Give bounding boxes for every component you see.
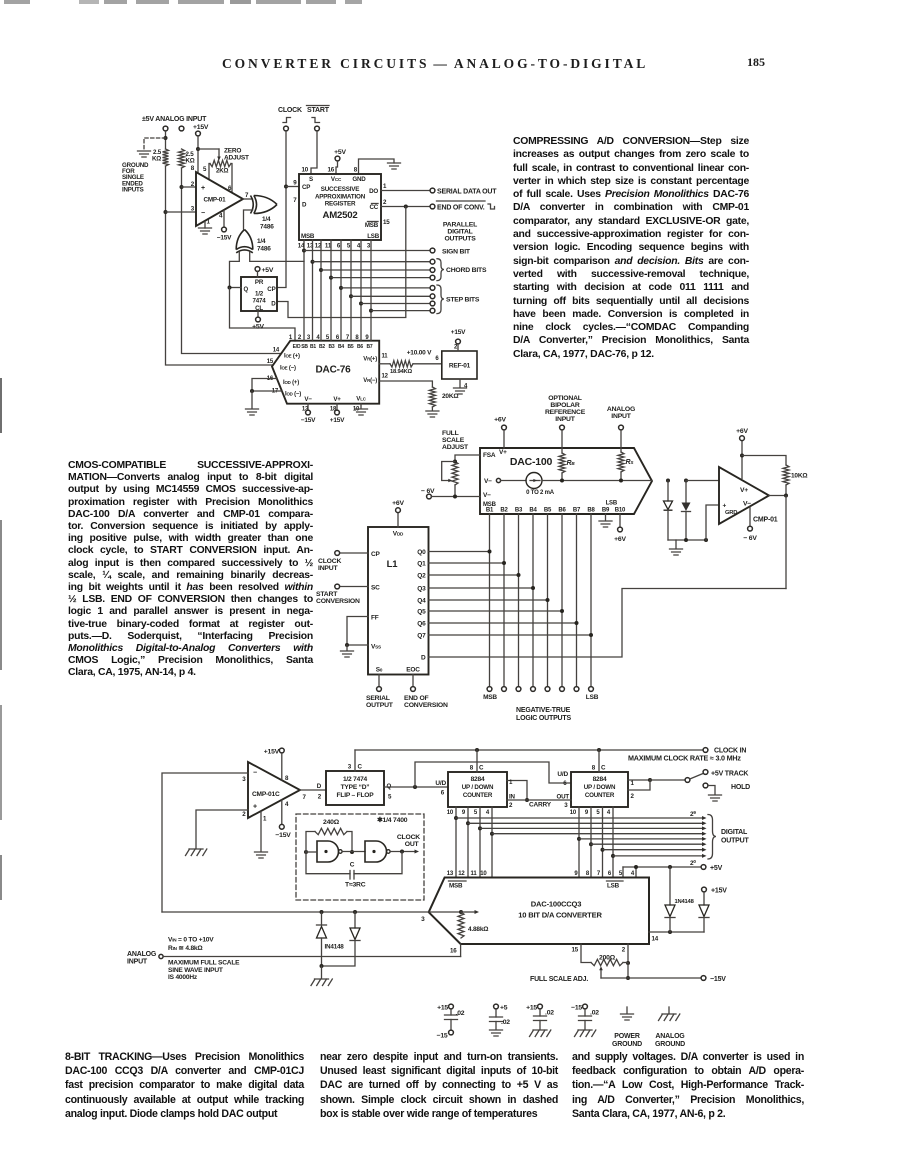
ground REF-01 — [454, 388, 467, 394]
terminal START — [315, 126, 320, 131]
svg-text:GND: GND — [352, 176, 366, 183]
svg-text:BIPOLAR: BIPOLAR — [550, 402, 579, 409]
wire B10 to +6V — [619, 514, 621, 527]
svg-text:15: 15 — [267, 359, 274, 365]
terminal start conversion — [335, 584, 340, 589]
wire feedback to 10K — [742, 456, 786, 466]
svg-text:LSB: LSB — [367, 233, 380, 240]
clock out arrow — [415, 849, 420, 853]
junction output — [784, 494, 788, 498]
svg-text:−15: −15 — [571, 1005, 582, 1012]
wire +15V to pin 8 — [197, 136, 199, 173]
potentiometer 2K zero adjust — [210, 160, 231, 166]
svg-text:SCALE: SCALE — [442, 437, 465, 444]
svg-text:0 TO 2 mA: 0 TO 2 mA — [526, 490, 555, 496]
svg-text:Q1: Q1 — [417, 560, 426, 567]
current source symbol — [526, 473, 542, 489]
flip-flop U10 1/2 7474 — [326, 771, 384, 805]
brace chord bits — [437, 259, 444, 281]
svg-text:18.94KΩ: 18.94KΩ — [390, 369, 412, 375]
svg-text:D: D — [271, 301, 276, 308]
svg-text:6: 6 — [608, 871, 612, 877]
dac U4 DAC-76 outline — [272, 341, 379, 404]
wire nand1 out to nand2 — [343, 851, 365, 853]
resistor 10K — [783, 465, 789, 485]
terminal hold — [703, 783, 708, 788]
svg-text:.02: .02 — [501, 1019, 510, 1026]
counter U12 8284 up/down — [571, 772, 628, 807]
junction pot bottom — [453, 495, 457, 499]
svg-text:+5V: +5V — [710, 865, 723, 872]
wire branch to comparator pin 3 — [166, 211, 197, 213]
terminal -15V fsa — [701, 976, 706, 981]
svg-text:IOE (+): IOE (+) — [284, 354, 300, 360]
svg-text:VIN = 0 TO +10V: VIN = 0 TO +10V — [168, 937, 214, 944]
svg-text:4: 4 — [631, 871, 635, 877]
svg-text:+10.00 V: +10.00 V — [407, 350, 432, 357]
svg-text:EOC: EOC — [406, 667, 420, 674]
svg-text:11: 11 — [382, 354, 389, 360]
svg-text:15: 15 — [572, 947, 579, 954]
junction CC node — [404, 205, 408, 209]
diode clamp D8 — [354, 912, 356, 928]
svg-text:GRD: GRD — [725, 510, 737, 516]
junction Q node — [228, 286, 232, 290]
wire resistor to nodeB — [347, 832, 352, 853]
terminal analog input c3 — [159, 954, 163, 958]
svg-text:16: 16 — [450, 948, 457, 955]
svg-text:8: 8 — [592, 765, 596, 772]
counter U11 8284 up/down — [448, 772, 507, 807]
junction+wires step bits — [339, 286, 343, 290]
wire comparator output — [769, 495, 786, 497]
svg-text:S0: S0 — [376, 667, 383, 674]
svg-text:5: 5 — [474, 810, 478, 816]
svg-text:T≈3RC: T≈3RC — [345, 882, 366, 889]
svg-text:CMP-01: CMP-01 — [753, 517, 778, 524]
svg-text:DIGITAL: DIGITAL — [721, 829, 748, 836]
wire clock line — [277, 131, 286, 288]
dashed box clock oscillator — [296, 814, 424, 900]
junction V+ feedback — [740, 454, 744, 458]
svg-text:9: 9 — [585, 810, 589, 816]
wire VLC to ground — [360, 404, 362, 408]
terminal +5V vcc — [335, 156, 340, 161]
svg-text:12: 12 — [458, 871, 465, 877]
svg-text:B3: B3 — [515, 508, 523, 514]
terminals negative-true outputs — [487, 687, 492, 692]
svg-text:IN: IN — [509, 794, 516, 801]
svg-text:7486: 7486 — [257, 246, 271, 253]
switch arm — [690, 774, 703, 780]
svg-text:+6V: +6V — [494, 417, 506, 424]
svg-text:LOGIC OUTPUTS: LOGIC OUTPUTS — [516, 715, 571, 722]
junction clamp b — [353, 910, 357, 914]
svg-text:MAXIMUM CLOCK RATE ≈ 3.0 MHz: MAXIMUM CLOCK RATE ≈ 3.0 MHz — [628, 754, 741, 763]
capacitor C osc — [350, 871, 354, 880]
svg-text:9: 9 — [293, 180, 297, 187]
svg-text:Q0: Q0 — [417, 549, 426, 556]
svg-text:FULL SCALE ADJ.: FULL SCALE ADJ. — [530, 976, 588, 983]
terminal -6V fsa — [427, 494, 432, 499]
register U1 AM2502 successive approximation — [299, 174, 381, 240]
svg-text:V−: V− — [483, 492, 491, 499]
svg-text:15: 15 — [383, 219, 390, 226]
svg-text:IS 4000Hz: IS 4000Hz — [168, 974, 198, 981]
wire CC to end of conv — [381, 206, 430, 208]
wiper arrow zero adjust — [218, 149, 220, 157]
svg-text:8: 8 — [470, 765, 474, 772]
left edge scan marks — [0, 378, 2, 433]
wires Q0-Q7 to bit lines — [429, 551, 490, 553]
ground clamp — [675, 540, 677, 548]
svg-text:2: 2 — [318, 794, 322, 801]
svg-text:+6V: +6V — [614, 536, 626, 543]
wire analog to RS — [620, 430, 622, 452]
svg-text:5: 5 — [347, 243, 351, 250]
wiper arrowhead — [448, 479, 452, 483]
terminal -15V dac — [306, 410, 311, 415]
svg-text:−: − — [201, 210, 205, 217]
svg-text:VCC: VCC — [331, 176, 342, 183]
svg-text:8: 8 — [586, 871, 590, 877]
svg-text:2: 2 — [383, 199, 387, 206]
svg-text:B6: B6 — [558, 508, 566, 514]
svg-text:V−: V− — [484, 478, 492, 485]
svg-text:CONVERSION: CONVERSION — [316, 598, 360, 605]
ground register GND pin — [388, 163, 401, 169]
svg-text:−15: −15 — [437, 1033, 448, 1040]
wire 10K to output — [785, 485, 787, 496]
junction rail counter1 — [475, 748, 479, 752]
wire +5V to PR — [257, 271, 259, 277]
svg-text:+5V: +5V — [262, 267, 274, 274]
ground for single-ended inputs — [138, 151, 151, 157]
svg-text:COUNTER: COUNTER — [463, 792, 493, 799]
svg-text:L1: L1 — [387, 559, 399, 570]
svg-text:CLOCK: CLOCK — [397, 834, 420, 841]
wire FF loop — [347, 617, 368, 646]
svg-text:+: + — [201, 185, 205, 192]
terminal -15V c3 — [279, 824, 284, 829]
svg-text:+15V: +15V — [451, 329, 466, 336]
junction input A / dashed branch — [164, 136, 168, 140]
chassis ground clamp — [311, 979, 332, 986]
svg-text:6: 6 — [337, 243, 341, 250]
wire fsa to -15V — [601, 977, 701, 979]
wire ref to RB — [561, 430, 563, 453]
wire input line A down to IOE(-) — [166, 166, 274, 365]
bottom caption column 2 — [320, 1050, 558, 1121]
svg-text:1: 1 — [383, 183, 387, 190]
wire comparator output to XOR1 — [243, 198, 253, 200]
svg-text:7: 7 — [597, 871, 601, 877]
svg-text:.02: .02 — [456, 1010, 465, 1017]
svg-text:Q3: Q3 — [417, 585, 426, 592]
svg-text:29: 29 — [690, 810, 696, 818]
junction+wires chord bits — [311, 260, 315, 264]
terminal end of conv — [430, 204, 435, 209]
wire FSA to pot — [455, 455, 480, 462]
svg-text:DAC-100: DAC-100 — [510, 456, 553, 468]
wire noninverting to ground — [196, 810, 248, 848]
wire counter2 pin2 loop — [628, 780, 650, 790]
wire pot bottom — [454, 485, 456, 497]
svg-text:11: 11 — [471, 871, 478, 877]
svg-text:1: 1 — [207, 219, 211, 226]
terminal bipolar ref — [560, 425, 565, 430]
diode clamp D6 — [684, 479, 688, 483]
terminal +5V rail — [701, 865, 706, 870]
bypass cap group 2 +5 — [494, 1004, 499, 1009]
diode D9 1N4148 — [669, 867, 671, 905]
svg-text:2: 2 — [622, 947, 626, 954]
svg-text:OPTIONAL: OPTIONAL — [548, 395, 582, 402]
svg-text:9: 9 — [462, 810, 466, 816]
svg-text:ANALOG: ANALOG — [127, 951, 157, 958]
bus junction dots and lines — [454, 816, 458, 820]
svg-text:CMP-01: CMP-01 — [204, 197, 227, 204]
diode clamp D7 — [321, 912, 323, 925]
svg-text:FLIP – FLOP: FLIP – FLOP — [337, 792, 375, 799]
svg-text:3: 3 — [421, 916, 425, 923]
junction clock out node — [400, 850, 404, 854]
flip-flop U3 1/2 7474 — [241, 277, 277, 311]
svg-text:−: − — [253, 770, 257, 777]
svg-text:Q2: Q2 — [417, 572, 426, 579]
wire line to comparator +input — [686, 480, 719, 482]
svg-text:Q7: Q7 — [417, 632, 426, 639]
junction +15V / zero-adjust — [196, 147, 200, 151]
svg-text:240Ω: 240Ω — [323, 819, 340, 826]
svg-text:MSB: MSB — [301, 233, 315, 240]
svg-text:OUTPUTS: OUTPUTS — [444, 236, 476, 243]
svg-text:B10: B10 — [615, 508, 626, 514]
nand gate U14a — [317, 841, 339, 862]
svg-text:REGISTER: REGISTER — [325, 201, 356, 208]
svg-text:CHORD BITS: CHORD BITS — [446, 267, 487, 274]
wire S0 out — [378, 675, 380, 687]
resistor 200 fsa — [591, 959, 623, 965]
svg-text:+15: +15 — [437, 1005, 448, 1012]
svg-text:+5: +5 — [500, 1005, 508, 1012]
ground pin1 c3 — [255, 852, 268, 858]
wire Q to U/D — [384, 786, 448, 788]
terminal analog input 2 — [179, 126, 184, 131]
svg-text:DAC-76: DAC-76 — [316, 365, 352, 376]
xor gate U2b 1/4 7486 vertical — [236, 250, 253, 253]
svg-text:−15V: −15V — [275, 832, 291, 839]
svg-text:4: 4 — [607, 810, 611, 816]
resistor RB — [559, 453, 565, 473]
svg-text:5: 5 — [388, 794, 392, 801]
svg-text:OUT: OUT — [557, 794, 570, 801]
wire cap to clockout node — [354, 852, 402, 874]
svg-text:+5V TRACK: +5V TRACK — [711, 771, 748, 778]
svg-text:INPUT: INPUT — [127, 959, 148, 966]
wire RS to line — [620, 472, 622, 481]
svg-text:4: 4 — [219, 213, 223, 220]
svg-text:7: 7 — [293, 197, 297, 204]
wire nand2 out — [391, 851, 414, 853]
svg-text:B7: B7 — [367, 344, 373, 350]
wire resistor to REF-01 — [413, 363, 442, 365]
wire to track switch — [650, 779, 685, 781]
wire XOR2 left input to 7474 Q — [230, 252, 240, 288]
wire dac pin15 stem — [581, 944, 591, 963]
svg-text:8: 8 — [354, 167, 358, 174]
svg-text:−15V: −15V — [301, 417, 316, 424]
svg-text:1N4148: 1N4148 — [675, 899, 695, 905]
dac U13 DAC-100CCQ3 outline — [429, 878, 649, 945]
svg-text:UP / DOWN: UP / DOWN — [462, 784, 494, 791]
wire dac pin2 stem — [627, 944, 629, 963]
ground IOD node — [246, 409, 259, 415]
terminal +15V c3 — [279, 748, 284, 753]
wire clamp node to chassis — [321, 966, 323, 978]
svg-text:B5: B5 — [348, 344, 354, 350]
svg-text:4: 4 — [486, 810, 490, 816]
junction clamp D6 — [684, 538, 688, 542]
svg-text:+: + — [253, 804, 257, 811]
svg-text:3: 3 — [348, 764, 352, 771]
svg-text:GROUND: GROUND — [655, 1041, 685, 1048]
svg-text:ANALOG: ANALOG — [655, 1033, 685, 1040]
wire RB to line — [561, 473, 563, 481]
op-amp comparator U8 CMP-01 — [719, 467, 769, 524]
wire VSS to ground — [346, 645, 348, 650]
svg-text:+: + — [723, 503, 727, 510]
svg-text:NEGATIVE-TRUE: NEGATIVE-TRUE — [516, 707, 571, 714]
terminal +5V preset — [255, 267, 260, 272]
svg-text:10 BIT D/A CONVERTER: 10 BIT D/A CONVERTER — [518, 911, 602, 920]
wire dac pin5 to +5V rail — [622, 867, 624, 878]
svg-text:OUTPUT: OUTPUT — [366, 702, 394, 709]
svg-text:V+: V+ — [499, 449, 507, 456]
svg-text:1/2: 1/2 — [255, 291, 264, 298]
svg-text:V+: V+ — [333, 396, 341, 403]
svg-text:B4: B4 — [529, 508, 537, 514]
junction IOD node — [250, 389, 254, 393]
svg-text:DIGITAL: DIGITAL — [447, 229, 472, 236]
svg-text:Q6: Q6 — [417, 620, 426, 627]
svg-text:3: 3 — [564, 802, 568, 809]
svg-text:START: START — [316, 591, 338, 598]
svg-text:D: D — [421, 655, 426, 662]
svg-text:5: 5 — [203, 166, 207, 173]
wires register outputs to dac-76 inputs — [303, 240, 305, 341]
wire V+ to +6V — [741, 441, 743, 479]
svg-text:10: 10 — [302, 167, 309, 174]
wire +6V to V+ — [503, 430, 505, 448]
svg-text:IOD (−): IOD (−) — [285, 392, 301, 398]
svg-text:1: 1 — [263, 816, 267, 823]
wire clamp bottom — [668, 539, 706, 541]
terminal clock input L1 — [335, 551, 340, 556]
op-amp comparator CMP-01 — [196, 172, 243, 226]
wire comparator out to 7474 D — [300, 789, 326, 791]
junction pot top — [453, 460, 457, 464]
terminal switch hinge — [685, 778, 690, 783]
terminal +6V L1 — [396, 508, 401, 513]
svg-text:.02: .02 — [545, 1010, 554, 1017]
svg-text:AM2502: AM2502 — [322, 210, 357, 221]
junction RS — [619, 479, 623, 483]
wire -6V to V- — [432, 496, 481, 498]
terminal +5V track — [703, 770, 708, 775]
wire Q node to DAC E/D — [230, 288, 296, 342]
wire pot wiper loop — [442, 462, 455, 481]
svg-text:CARRY: CARRY — [529, 802, 552, 809]
wire VR+ to reference resistor — [379, 363, 390, 365]
junction clamp ground — [320, 964, 324, 968]
feedback wire into dac — [162, 911, 461, 913]
wire D to comparator output — [429, 589, 787, 658]
terminal sign bit — [430, 248, 435, 253]
wire cap branch — [306, 852, 350, 874]
terminal +6V B10 — [618, 527, 623, 532]
register U7 MC14559 L1 — [368, 527, 429, 675]
svg-text:200Ω: 200Ω — [599, 955, 616, 962]
wire input line B down to IOE(+) — [182, 168, 282, 354]
svg-text:−15V: −15V — [217, 235, 232, 242]
svg-text:10: 10 — [570, 810, 577, 816]
svg-text:LSB: LSB — [606, 501, 618, 507]
svg-text:U/D: U/D — [557, 771, 568, 778]
svg-text:Q5: Q5 — [417, 608, 426, 615]
svg-text:LSB: LSB — [586, 694, 599, 701]
resistor 240 — [315, 828, 347, 834]
junction nodeB — [350, 850, 354, 854]
counter output verticals to dac — [455, 807, 457, 878]
ground VLC — [355, 409, 368, 415]
chassis ground comparator — [186, 849, 207, 856]
svg-text:MAXIMUM FULL SCALE: MAXIMUM FULL SCALE — [168, 960, 240, 967]
svg-text:+6V: +6V — [392, 500, 404, 507]
terminal CLOCK — [284, 126, 289, 131]
svg-text:2: 2 — [631, 793, 635, 800]
svg-text:VSS: VSS — [371, 644, 381, 651]
wire +15V to pin8 — [281, 753, 283, 780]
svg-text:CMP-01C: CMP-01C — [252, 791, 280, 798]
svg-text:INPUT: INPUT — [555, 416, 575, 423]
wire pin4 to -15V — [223, 211, 225, 228]
svg-text:14: 14 — [652, 936, 659, 943]
svg-text:10KΩ: 10KΩ — [791, 473, 807, 480]
svg-text:FULL: FULL — [442, 430, 459, 437]
junction carry — [525, 798, 529, 802]
resistor RS — [618, 452, 624, 472]
svg-text:SB: SB — [301, 344, 308, 350]
terminal +6V cmp — [740, 436, 745, 441]
wire Q up-over to counter2 U/D — [415, 762, 571, 787]
svg-text:ADJUST: ADJUST — [442, 444, 469, 451]
wire REF-01 pin 4 to ground — [459, 379, 461, 387]
svg-text:VLC: VLC — [356, 396, 366, 403]
svg-text:+6V: +6V — [736, 428, 748, 435]
wire V- to -15V — [307, 404, 309, 410]
wire sign bit out — [304, 250, 430, 252]
svg-text:B1: B1 — [310, 344, 316, 350]
svg-text:VDD: VDD — [393, 531, 404, 538]
svg-text:HOLD: HOLD — [731, 784, 750, 791]
oscillator node A — [304, 850, 308, 854]
wire output down to D line — [785, 496, 787, 589]
svg-text:D: D — [302, 202, 307, 209]
wire +15V to REF-01 — [457, 344, 459, 351]
svg-text:3: 3 — [367, 243, 371, 250]
ground comparator pin 1 — [199, 228, 212, 234]
